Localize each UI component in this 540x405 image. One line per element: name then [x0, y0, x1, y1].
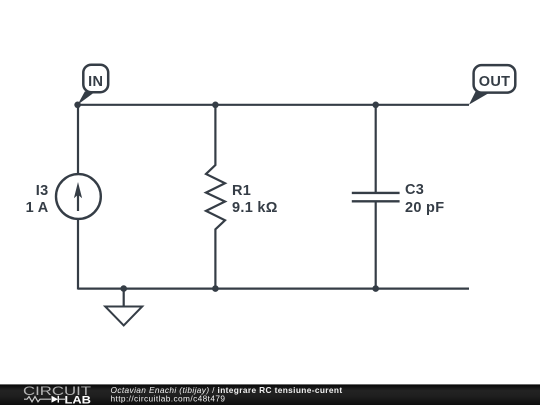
svg-text:9.1 kΩ: 9.1 kΩ	[232, 200, 278, 216]
svg-text:IN: IN	[88, 74, 103, 90]
resistor R1	[206, 105, 225, 289]
wire: left branch bottom (I3 bottom to ground net)	[77, 218, 79, 290]
node OUT flag	[469, 65, 515, 105]
svg-text:C3: C3	[405, 182, 424, 198]
svg-text:1 A: 1 A	[26, 200, 49, 216]
svg-text:http://circuitlab.com/c48t479: http://circuitlab.com/c48t479	[111, 393, 226, 403]
junction dot IN node	[74, 102, 81, 109]
node IN flag	[78, 65, 109, 105]
footer bar	[0, 384, 540, 405]
ground	[105, 289, 142, 326]
junction dot ground	[120, 285, 127, 292]
junction dot R1 top	[212, 102, 219, 109]
svg-text:I3: I3	[36, 183, 49, 199]
CircuitLab logo	[23, 386, 91, 405]
current source I3	[56, 174, 101, 219]
svg-text:OUT: OUT	[479, 74, 511, 90]
label R1 value	[232, 183, 278, 216]
footer credit text	[111, 385, 343, 404]
svg-text:R1: R1	[232, 183, 251, 199]
wire: top net IN/OUT horizontal	[78, 104, 469, 106]
svg-text:20 pF: 20 pF	[405, 200, 444, 216]
wire: left branch top (I3 top to IN node)	[77, 105, 79, 175]
svg-text:LAB: LAB	[65, 394, 92, 405]
junction dot C3 bottom	[372, 285, 379, 292]
junction dot R1 bottom	[212, 285, 219, 292]
label I3 value	[26, 183, 49, 216]
junction dot C3 top	[372, 102, 379, 109]
wire: bottom ground net horizontal	[78, 288, 469, 290]
capacitor C3	[352, 105, 400, 289]
label C3 value	[405, 182, 444, 216]
